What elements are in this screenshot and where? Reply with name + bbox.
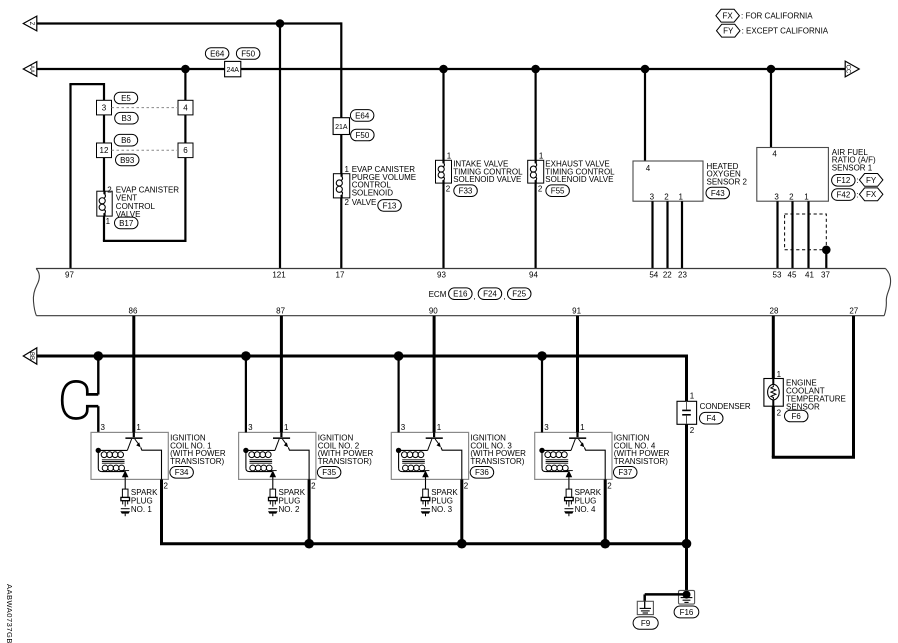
- svg-text:4: 4: [183, 104, 188, 113]
- pin 4 label (HO2S2): [646, 164, 651, 173]
- connector label B17: [115, 217, 139, 229]
- svg-text:VALVE: VALVE: [352, 198, 377, 207]
- svg-text:86: 86: [129, 307, 138, 316]
- svg-text:F24: F24: [483, 290, 497, 299]
- svg-text:3: 3: [401, 423, 406, 432]
- spark plug no. 4: [564, 489, 574, 516]
- svg-text:F25: F25: [512, 290, 526, 299]
- svg-text:AA: AA: [28, 65, 34, 73]
- svg-text:FY: FY: [866, 176, 877, 185]
- svg-text:97: 97: [65, 271, 74, 280]
- svg-text:1: 1: [345, 165, 350, 174]
- svg-text:F6: F6: [792, 412, 802, 421]
- wire fuse 21A to purge solenoid: [340, 135, 342, 174]
- pin 2 label (ECT sensor): [777, 408, 782, 417]
- wire coil 2 pin 2 to ground bus: [308, 479, 311, 543]
- svg-text:: EXCEPT CALIFORNIA: : EXCEPT CALIFORNIA: [742, 27, 829, 36]
- wire ignition ground bus: [160, 542, 687, 545]
- connector label E5: [114, 92, 138, 104]
- svg-text:F55: F55: [551, 187, 565, 196]
- wire connector 6 to connector 4: [184, 115, 186, 143]
- pin 1 label (coil 2): [284, 423, 289, 432]
- wire bus Z horizontal: [37, 22, 342, 24]
- svg-text:B6: B6: [121, 136, 131, 145]
- pin 2 label (intake solenoid): [446, 184, 451, 193]
- svg-text:45: 45: [788, 271, 797, 280]
- svg-text:27: 27: [849, 307, 858, 316]
- pin 4 label (A/F sensor): [772, 150, 777, 159]
- pin 2 label (exhaust solenoid): [538, 184, 543, 193]
- node junction bus AA / exhaust branch: [531, 65, 540, 74]
- wire bus BB horizontal: [37, 355, 687, 358]
- power transistor (coil 4): [569, 432, 605, 479]
- transformer primary winding (coil 4): [539, 448, 571, 458]
- pin 2 label (coil 2): [311, 482, 316, 491]
- svg-text:2: 2: [777, 408, 782, 417]
- ECM band torn right edge: [884, 269, 890, 316]
- pin 2 label (purge solenoid): [345, 198, 350, 207]
- node shield junction: [822, 246, 831, 255]
- svg-text:2: 2: [107, 185, 112, 194]
- node junction bus BB / coil4: [537, 351, 547, 361]
- label EVAP CANISTER VENT CONTROL VALVE: [116, 185, 180, 219]
- svg-text:21A: 21A: [335, 124, 348, 131]
- svg-text:,: ,: [503, 292, 505, 301]
- node junction bus BB / coil3: [394, 351, 404, 361]
- svg-text:3: 3: [544, 423, 549, 432]
- label SPARK PLUG NO. 1: [131, 488, 158, 514]
- svg-text:2: 2: [345, 198, 350, 207]
- ECM band top edge: [36, 268, 885, 270]
- transformer secondary winding (coil 4): [542, 450, 568, 471]
- svg-text:NO. 4: NO. 4: [575, 505, 596, 514]
- pin 3 2 1 labels (A/F sensor): [774, 193, 809, 202]
- wire ECM to coil 1 pin 1: [132, 316, 135, 433]
- svg-text:NO. 3: NO. 3: [431, 505, 452, 514]
- svg-text:2: 2: [664, 193, 669, 202]
- wire bus AA to intake solenoid: [442, 69, 444, 160]
- svg-text:2: 2: [690, 426, 695, 435]
- wire coil 4 pin 2 to ground bus: [604, 479, 607, 543]
- pin 2 label (condenser): [690, 426, 695, 435]
- svg-text:F50: F50: [241, 49, 255, 58]
- svg-text:1: 1: [777, 370, 782, 379]
- wire ground junction to F16: [685, 544, 688, 595]
- wire bus Z drop to fuse 21A: [340, 22, 342, 117]
- connector label F13: [378, 200, 402, 212]
- svg-text:2: 2: [789, 193, 794, 202]
- label IGNITION COIL NO. 2 (WITH POWER TRANSISTOR): [318, 434, 374, 466]
- svg-text:TRANSISTOR): TRANSISTOR): [614, 457, 668, 466]
- svg-text:,: ,: [474, 292, 476, 301]
- ignition coil no. 3 box: [391, 432, 468, 479]
- ECM top pin numbers: [65, 271, 830, 280]
- svg-text:3: 3: [101, 423, 106, 432]
- transformer secondary winding (coil 3): [399, 450, 425, 471]
- connector pin 6 square: [178, 143, 193, 158]
- wire loop symbol on coil1 supply: [62, 356, 98, 432]
- pin 1 label (ECT sensor): [777, 370, 782, 379]
- svg-text:3: 3: [650, 193, 655, 202]
- wire bus AA horizontal: [37, 68, 845, 70]
- connector label F4: [700, 412, 724, 424]
- svg-text:TRANSISTOR): TRANSISTOR): [170, 457, 224, 466]
- intake valve timing control solenoid valve coil: [436, 160, 452, 183]
- svg-text:F42: F42: [837, 191, 851, 200]
- wire shield to ECM pin 37: [825, 250, 827, 269]
- svg-text:6: 6: [183, 146, 188, 155]
- spark gap arrow (coil 4): [565, 470, 573, 479]
- svg-text:4: 4: [772, 150, 777, 159]
- wires A/F pins 3 2 1 to ECM 53 45 41: [778, 201, 809, 268]
- ECM band bottom edge: [36, 315, 884, 317]
- svg-text:CC: CC: [844, 65, 850, 74]
- pin 3 label (coil 3): [401, 423, 406, 432]
- legend badge FX: [716, 9, 813, 22]
- svg-text:F35: F35: [322, 468, 336, 477]
- svg-text:23: 23: [678, 271, 687, 280]
- connector label F50 (fuse 24A): [236, 48, 260, 60]
- connector label F42 with FX: [832, 188, 883, 201]
- label EVAP CANISTER PURGE VOLUME CONTROL SOLENOID VALVE: [352, 165, 416, 207]
- wire ECM pin 121 drop: [279, 24, 281, 269]
- node junction bus Z to ECM pin 121: [276, 19, 285, 28]
- svg-text:1: 1: [804, 193, 809, 202]
- svg-text:1: 1: [447, 151, 452, 160]
- power transistor (coil 3): [426, 432, 462, 479]
- svg-text:2: 2: [538, 184, 543, 193]
- svg-text:121: 121: [272, 271, 286, 280]
- shield dashed box (A/F sensor wires): [785, 214, 827, 250]
- pin 1 label (purge solenoid): [345, 165, 350, 174]
- svg-text:E64: E64: [210, 49, 225, 58]
- node junction ground bus / coil4: [600, 539, 610, 549]
- svg-text:53: 53: [773, 271, 782, 280]
- ignition coil no. 4 box: [535, 432, 612, 479]
- svg-text:BB: BB: [28, 352, 34, 360]
- svg-text:F13: F13: [383, 201, 397, 210]
- wire ECT sensor loop to ECM pin 27: [772, 316, 855, 458]
- svg-text:SENSOR 2: SENSOR 2: [707, 178, 748, 187]
- wire connector 4 to bus AA: [184, 69, 186, 100]
- wire coil 3 pin 2 to ground bus: [460, 479, 463, 543]
- wires HO2S2 pins 3 2 1 to ECM 54 22 23: [653, 201, 683, 268]
- svg-text:1: 1: [539, 151, 544, 160]
- wire bus BB to coil 2 pin 3: [245, 356, 247, 432]
- pin 1 label (intake solenoid): [447, 151, 452, 160]
- dashed link connector 3-4: [112, 107, 179, 109]
- EVAP canister vent control valve coil: [97, 191, 112, 216]
- pin 2 label (coil 4): [607, 482, 612, 491]
- ECM band torn left edge: [33, 269, 39, 316]
- wire coil 1 pin 2 to ground bus: [160, 479, 163, 543]
- svg-text:F36: F36: [475, 468, 489, 477]
- connector label E64 (fuse 24A): [205, 48, 229, 60]
- label SPARK PLUG NO. 2: [279, 488, 306, 514]
- ignition coil no. 1 box: [91, 432, 168, 479]
- svg-text:12: 12: [100, 146, 109, 155]
- svg-text::: :: [856, 191, 858, 200]
- connector label F35: [317, 467, 341, 479]
- connector arrow Z: [23, 16, 37, 31]
- label INTAKE VALVE TIMING CONTROL SOLENOID VALVE: [453, 160, 523, 185]
- label AIR FUEL RATIO (A/F) SENSOR 1: [832, 148, 876, 173]
- svg-text:CONDENSER: CONDENSER: [700, 402, 751, 411]
- pin 2 label (coil 1): [164, 482, 169, 491]
- pin 1 label (coil 4): [580, 423, 585, 432]
- svg-text:SOLENOID VALVE: SOLENOID VALVE: [545, 175, 613, 184]
- spark gap arrow (coil 3): [421, 470, 429, 479]
- wire bus AA to heated oxygen sensor 2: [644, 69, 646, 161]
- wire ECM to coil 3 pin 1: [433, 316, 436, 433]
- wire purge solenoid to ECM pin 17: [340, 198, 342, 269]
- transformer primary winding (coil 3): [396, 448, 428, 458]
- connector label F36: [470, 467, 494, 479]
- svg-text:F43: F43: [711, 189, 725, 198]
- svg-text:28: 28: [770, 307, 779, 316]
- svg-text:ECM: ECM: [429, 290, 447, 299]
- wire exhaust solenoid to ECM pin 94: [534, 183, 536, 268]
- ECM bottom pin numbers: [129, 307, 859, 316]
- svg-text:SOLENOID: SOLENOID: [352, 188, 394, 197]
- svg-text:: FOR CALIFORNIA: : FOR CALIFORNIA: [741, 12, 813, 21]
- svg-text:37: 37: [821, 271, 830, 280]
- svg-text:1: 1: [690, 391, 695, 400]
- svg-text:2: 2: [607, 482, 612, 491]
- wire bus AA to A/F sensor 1: [770, 69, 772, 148]
- transformer core (coil 3): [402, 460, 425, 463]
- svg-text:3: 3: [102, 104, 107, 113]
- exhaust valve timing control solenoid valve coil: [528, 160, 544, 183]
- wire ECM pin 97 riser: [69, 83, 104, 269]
- wire coil 4 spark lead: [568, 479, 570, 489]
- connector arrow BB: [23, 348, 37, 364]
- connector label F34: [170, 467, 194, 479]
- svg-text:AABWA0737GB: AABWA0737GB: [5, 584, 14, 643]
- svg-text:F33: F33: [459, 187, 473, 196]
- legend badge FY: [717, 24, 829, 37]
- connector pin 4 square: [178, 100, 193, 115]
- wire ECM pin 28 to ECT sensor: [772, 316, 775, 379]
- pin 1 label (coil 3): [437, 423, 442, 432]
- connector arrow CC: [844, 61, 859, 77]
- svg-text:NO. 2: NO. 2: [279, 505, 300, 514]
- label IGNITION COIL NO. 4 (WITH POWER TRANSISTOR): [614, 434, 670, 466]
- connector label F37: [614, 467, 638, 479]
- spark plug no. 3: [421, 489, 431, 516]
- svg-text:F50: F50: [356, 131, 370, 140]
- svg-text:1: 1: [106, 217, 111, 226]
- connector label B6: [114, 134, 138, 146]
- ignition coil no. 2 box: [239, 432, 316, 479]
- connector label E64 (fuse 21A): [350, 110, 374, 122]
- svg-text:F37: F37: [618, 468, 632, 477]
- node junction bus AA / HO2S2 branch: [641, 65, 650, 74]
- svg-text:F4: F4: [707, 414, 717, 423]
- node junction bus AA / AF1 branch: [767, 65, 776, 74]
- pin 1 label (condenser): [690, 391, 695, 400]
- condenser F4: [677, 401, 697, 424]
- svg-text:2: 2: [311, 482, 316, 491]
- connector label F33: [454, 185, 478, 197]
- label HEATED OXYGEN SENSOR 2: [707, 162, 748, 187]
- transformer core (coil 2): [250, 460, 273, 463]
- node junction bus AA / vent branch: [181, 65, 190, 74]
- svg-text:NO. 1: NO. 1: [131, 505, 152, 514]
- connector label F16: [674, 606, 699, 618]
- svg-text:1: 1: [678, 193, 683, 202]
- label CONDENSER: [700, 402, 751, 411]
- svg-text:90: 90: [429, 307, 438, 316]
- wire coil 1 spark lead: [124, 479, 126, 489]
- engine coolant temperature sensor box: [764, 379, 783, 407]
- node junction bus BB / coil1: [94, 351, 104, 361]
- node junction ground bus / coil2: [304, 539, 314, 549]
- wire connector 12 to vent valve coil: [103, 158, 105, 192]
- svg-text:1: 1: [136, 423, 141, 432]
- connector label F43: [706, 187, 730, 199]
- svg-text:54: 54: [649, 271, 658, 280]
- EVAP canister purge volume control solenoid valve coil: [333, 174, 349, 198]
- pin 3 2 1 labels (HO2S2): [650, 193, 684, 202]
- pin 1 label (vent valve): [106, 217, 111, 226]
- svg-text:1: 1: [437, 423, 442, 432]
- svg-text:B3: B3: [122, 114, 132, 123]
- svg-text:2: 2: [446, 184, 451, 193]
- spark gap arrow (coil 2): [269, 470, 277, 479]
- spark plug no. 2: [268, 489, 278, 516]
- connector label F55: [546, 185, 570, 197]
- svg-text:1: 1: [284, 423, 289, 432]
- power transistor (coil 2): [273, 432, 309, 479]
- svg-text:1: 1: [580, 423, 585, 432]
- svg-text:E64: E64: [355, 111, 370, 120]
- svg-text:FX: FX: [866, 190, 877, 199]
- svg-text:E5: E5: [121, 94, 131, 103]
- fuse 24A: [225, 61, 241, 76]
- node junction ground bus / condenser: [682, 539, 692, 549]
- svg-text:2: 2: [164, 482, 169, 491]
- transformer secondary winding (coil 1): [98, 450, 124, 471]
- svg-text:94: 94: [529, 271, 538, 280]
- transformer core (coil 1): [102, 460, 125, 463]
- svg-text:TRANSISTOR): TRANSISTOR): [470, 457, 524, 466]
- label IGNITION COIL NO. 3 (WITH POWER TRANSISTOR): [470, 434, 526, 466]
- ECM name and connector labels E16 F24 F25: [429, 288, 531, 301]
- svg-text:17: 17: [336, 271, 345, 280]
- pin 2 label (vent valve): [107, 185, 112, 194]
- svg-text:41: 41: [805, 271, 814, 280]
- wire F16 to F9 ground: [645, 594, 687, 601]
- spark plug no. 1: [120, 489, 130, 516]
- svg-text:SOLENOID VALVE: SOLENOID VALVE: [453, 175, 521, 184]
- node junction bus BB / coil2: [241, 351, 251, 361]
- connector label B93: [116, 154, 140, 166]
- wire bus BB to coil 4 pin 3: [541, 356, 543, 432]
- document code AABWA0737GB: [5, 584, 14, 643]
- svg-text:22: 22: [663, 271, 672, 280]
- svg-text:2: 2: [464, 482, 469, 491]
- wire between connector 3 and 12: [103, 115, 105, 143]
- heated oxygen sensor 2 box: [633, 161, 703, 201]
- label EXHAUST VALVE TIMING CONTROL SOLENOID VALVE: [545, 160, 615, 185]
- pin 3 label (coil 1): [101, 423, 106, 432]
- svg-text:F16: F16: [680, 608, 694, 617]
- label SPARK PLUG NO. 3: [431, 488, 458, 514]
- label IGNITION COIL NO. 1 (WITH POWER TRANSISTOR): [170, 434, 226, 466]
- wire coil 2 spark lead: [272, 479, 274, 489]
- ground F16: [679, 590, 695, 604]
- svg-text:TRANSISTOR): TRANSISTOR): [318, 457, 372, 466]
- transformer primary winding (coil 2): [243, 448, 275, 458]
- pin 2 label (coil 3): [464, 482, 469, 491]
- transformer primary winding (coil 1): [96, 448, 128, 458]
- svg-text:F9: F9: [641, 619, 651, 628]
- connector pin 12 square: [97, 143, 112, 158]
- fuse 21A: [333, 118, 349, 135]
- svg-text:F34: F34: [175, 468, 189, 477]
- connector pin 3 square: [97, 100, 112, 115]
- connector label F50 (fuse 21A): [351, 129, 375, 141]
- svg-text:24A: 24A: [226, 67, 239, 74]
- wire vent valve to connector 6: [103, 158, 185, 242]
- spark gap arrow (coil 1): [121, 470, 129, 479]
- svg-text:F12: F12: [837, 176, 851, 185]
- connector label F9: [633, 617, 658, 629]
- transformer secondary winding (coil 2): [246, 450, 272, 471]
- connector label B3: [115, 112, 139, 124]
- svg-text:93: 93: [437, 271, 446, 280]
- svg-text:E16: E16: [453, 290, 468, 299]
- wire intake solenoid to ECM pin 93: [442, 183, 444, 268]
- wire ECM to coil 2 pin 1: [280, 316, 283, 433]
- node junction bus AA / intake branch: [439, 65, 448, 74]
- node junction ground bus / coil3: [457, 539, 467, 549]
- svg-text::: :: [856, 176, 858, 185]
- svg-text:SENSOR 1: SENSOR 1: [832, 163, 873, 172]
- svg-text:FY: FY: [723, 27, 734, 36]
- svg-text:3: 3: [774, 193, 779, 202]
- power transistor (coil 1): [125, 432, 161, 479]
- dashed link connector 12-6: [112, 149, 179, 151]
- label ENGINE COOLANT TEMPERATURE SENSOR: [786, 378, 846, 411]
- pin 3 label (coil 4): [544, 423, 549, 432]
- pin 3 label (coil 2): [248, 423, 253, 432]
- svg-text:87: 87: [276, 307, 285, 316]
- air fuel ratio sensor 1 box: [757, 148, 829, 202]
- connector label F12 with FY: [832, 174, 883, 187]
- svg-text:FX: FX: [722, 12, 733, 21]
- label SPARK PLUG NO. 4: [575, 488, 602, 514]
- wire condenser to ground junction: [685, 424, 688, 543]
- svg-text:B17: B17: [119, 219, 134, 228]
- ground F9: [637, 601, 653, 614]
- wire bus BB to coil 3 pin 3: [398, 356, 400, 432]
- svg-text:B93: B93: [120, 156, 135, 165]
- pin 1 label (coil 1): [136, 423, 141, 432]
- svg-text:Z: Z: [28, 22, 34, 26]
- wire bus BB to condenser: [685, 355, 688, 402]
- svg-text:91: 91: [572, 307, 581, 316]
- pin 1 label (exhaust solenoid): [539, 151, 544, 160]
- wire coil 3 spark lead: [425, 479, 427, 489]
- svg-text:4: 4: [646, 164, 651, 173]
- connector arrow AA: [23, 62, 37, 77]
- wire ECM to coil 4 pin 1: [576, 316, 579, 433]
- connector label F6: [785, 410, 809, 422]
- wire bus AA to exhaust solenoid: [534, 69, 536, 160]
- svg-text:3: 3: [248, 423, 253, 432]
